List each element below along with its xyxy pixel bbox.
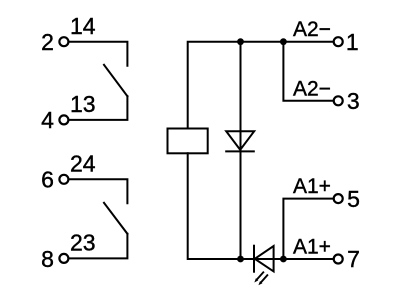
contact label 13	[70, 91, 96, 117]
contact label 23	[70, 230, 96, 256]
svg-text:A1+: A1+	[293, 236, 331, 259]
junction bottom bus at terminal 5 branch	[280, 256, 287, 263]
svg-text:6: 6	[41, 167, 54, 193]
terminal 2	[59, 37, 68, 46]
svg-text:1: 1	[346, 29, 359, 55]
relay coil	[168, 129, 208, 154]
junction top bus at terminal 3 branch	[280, 38, 287, 45]
freewheeling diode	[226, 131, 254, 151]
pin number 3	[347, 88, 360, 114]
wire terminal 6 to fixed contact 24	[69, 179, 127, 203]
svg-text:13: 13	[70, 91, 96, 117]
wire blade to terminal 8	[69, 234, 127, 259]
net label A2- (terminal 3)	[293, 77, 331, 100]
wire branch to terminal 3	[283, 42, 332, 101]
LED light arrow 2	[258, 275, 267, 285]
wire freewheel diode branch	[240, 42, 242, 259]
pin number 2	[41, 29, 54, 55]
LED cathode bar	[253, 246, 255, 272]
svg-text:4: 4	[41, 107, 54, 133]
wire branch to terminal 5	[283, 199, 333, 259]
svg-text:14: 14	[70, 13, 96, 39]
pin number 5	[347, 186, 360, 212]
net label A2- (terminal 1)	[293, 18, 331, 41]
pin number 7	[347, 246, 360, 272]
pin number 8	[41, 246, 54, 272]
svg-text:A1+: A1+	[293, 175, 331, 198]
svg-text:3: 3	[347, 88, 360, 114]
LED triangle	[255, 246, 274, 271]
terminal 5	[334, 194, 343, 203]
svg-text:23: 23	[70, 230, 96, 256]
wire blade to terminal 4	[69, 96, 127, 120]
net label A1+ (terminal 7)	[293, 236, 331, 259]
LED light arrow 1	[254, 272, 263, 282]
wire coil top to A2- bus	[188, 42, 333, 129]
terminal 8	[59, 254, 68, 263]
svg-text:5: 5	[347, 186, 360, 212]
contact label 14	[70, 13, 96, 39]
wire coil bottom to A1+ bus	[188, 153, 333, 259]
svg-text:A2−: A2−	[293, 77, 331, 100]
contact label 24	[70, 151, 96, 177]
terminal 1	[334, 37, 343, 46]
svg-text:A2−: A2−	[293, 18, 331, 41]
terminal 3	[334, 96, 343, 105]
terminal 7	[334, 255, 343, 264]
svg-text:8: 8	[41, 246, 54, 272]
switch blade contact 14-13	[104, 65, 127, 96]
pin number 6	[41, 167, 54, 193]
terminal 6	[59, 175, 68, 184]
terminal 4	[59, 115, 68, 124]
pin number 1	[346, 29, 359, 55]
junction bottom bus at diode branch	[237, 256, 244, 263]
svg-text:24: 24	[70, 151, 96, 177]
pin number 4	[41, 107, 54, 133]
svg-text:2: 2	[41, 29, 54, 55]
switch blade contact 24-23	[104, 203, 127, 234]
wire terminal 2 to fixed contact 14	[69, 42, 127, 66]
junction top bus at diode branch	[237, 38, 244, 45]
svg-text:7: 7	[347, 246, 360, 272]
net label A1+ (terminal 5)	[293, 175, 331, 198]
